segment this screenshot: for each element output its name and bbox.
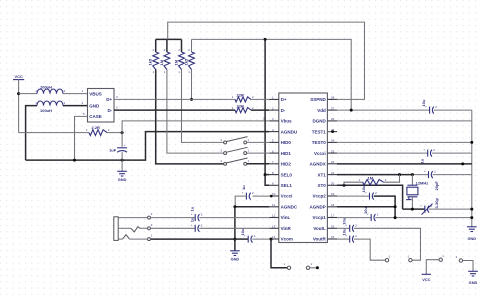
node SEL0 junction [264,173,267,176]
svg-text:+: + [242,191,244,195]
node jack tip pin [148,216,151,219]
svg-text:13: 13 [272,225,276,229]
svg-text:15: 15 [331,235,335,239]
wire R5 to node [107,132,122,134]
wire VoutR to C9 [337,238,350,240]
wire R6 to D+ pin [251,98,269,100]
power rail VCC symbol [13,79,24,81]
wire XT0 line [337,185,403,209]
svg-text:26: 26 [331,117,335,121]
wire AGNDC row [235,206,269,208]
svg-text:19: 19 [331,192,335,196]
svg-text:20pF: 20pF [434,181,439,191]
svg-text:+: + [191,212,193,216]
svg-text:14: 14 [272,235,276,239]
svg-text:10u: 10u [341,228,346,235]
wire analog ground drop [234,207,236,251]
svg-text:1M: 1M [159,59,164,65]
node CASE-rail junction [73,159,76,162]
wire SEL net vertical [265,39,269,185]
node jack ring pin [148,227,151,230]
wire C13 to Vcom pin [252,238,269,240]
svg-text:+: + [424,169,426,173]
wire SW2 to HID1 pin [247,152,269,154]
capacitor C7 10uF [370,214,372,221]
wire C8 to CN3 [354,228,421,260]
svg-text:+: + [423,148,425,152]
svg-text:AGNDX: AGNDX [310,162,326,167]
wire ground bus right [471,110,473,227]
node Vdd junction [350,109,353,112]
svg-text:18: 18 [331,203,335,207]
node cap-rail junction [121,159,124,162]
svg-text:1u: 1u [419,158,424,163]
svg-text:SEL1: SEL1 [281,183,293,188]
svg-text:Vdd: Vdd [317,108,326,113]
resistor R7 22R [235,108,251,113]
svg-text:VCC: VCC [422,277,430,282]
capacitor C13 10uF [247,236,249,243]
resistor R2 1M [166,39,168,52]
ground GND left [117,170,127,172]
svg-text:XT0: XT0 [318,183,327,188]
svg-text:10u: 10u [240,228,245,235]
node Vccp1-leg junction [394,216,397,219]
svg-text:D-: D- [281,108,286,113]
svg-text:10u: 10u [341,217,346,224]
capacitor C1 1uF [117,147,127,149]
svg-text:1u: 1u [241,185,246,190]
svg-text:VinR: VinR [281,226,292,231]
capacitor C5 trimmer 3-30p [424,206,426,213]
svg-text:2.2R: 2.2R [92,125,101,130]
wire crystal ground row [403,208,425,210]
wire sleeve to ground [151,238,235,240]
svg-text:12: 12 [272,214,276,218]
svg-text:Vccxi: Vccxi [314,151,326,156]
svg-text:12MHz: 12MHz [416,180,429,185]
connector CN4 right out [385,259,388,262]
wire R1 to SW3 [156,70,224,164]
svg-text:XT1: XT1 [318,172,327,177]
svg-text:23: 23 [331,149,335,153]
svg-text:17: 17 [331,214,335,218]
ground GND bus bottom [467,226,477,228]
svg-text:D-: D- [107,108,112,113]
capacitor C12 1uF [194,225,196,232]
wire D+ line [114,98,235,100]
resistor R5 2.2R [89,130,107,136]
svg-text:VBUS: VBUS [89,91,102,96]
svg-text:GND: GND [469,280,478,285]
wire AGNDP row [337,206,395,208]
wire C6 to AGNDP leg [374,196,395,218]
svg-text:HID1: HID1 [281,151,292,156]
svg-text:CASE: CASE [89,114,102,119]
wire C10 to AGNDC [235,196,246,207]
wire XT1 line [337,174,412,176]
wire C12 to VinR [199,227,269,229]
svg-text:10u: 10u [421,99,426,106]
connector J2 phone jack [114,217,118,241]
svg-text:D+: D+ [106,97,112,102]
svg-text:AGNDP: AGNDP [310,205,326,210]
wire SEL0 branch [265,174,269,176]
wire CN5 to VCC [426,260,439,275]
wire gnd to C13 [235,238,248,240]
svg-text:TEST0: TEST0 [312,140,327,145]
capacitor C10 1uF [245,193,247,200]
svg-text:GND: GND [467,236,476,241]
svg-text:VCC: VCC [14,74,22,79]
wire SSPND net top [156,38,182,40]
svg-text:1M: 1M [174,59,179,65]
node AGNDC junction [233,205,236,208]
svg-text:22: 22 [331,160,335,164]
connector CN6 GND testpoint [459,259,462,262]
wire VoutL to C8 [337,227,350,229]
svg-text:20: 20 [331,182,335,186]
svg-text:1M: 1M [368,175,374,180]
svg-text:11: 11 [272,203,275,207]
wire Vccxi to C3 [337,152,428,154]
wire jack ring contact [118,227,131,229]
connector CN2 testpoint [306,266,309,269]
svg-text:10: 10 [272,192,276,196]
capacitor C4 20pF [428,171,430,178]
wire L2 left leg [26,106,37,161]
connector CN3 left out [409,259,412,262]
svg-text:Vccp2: Vccp2 [313,194,327,199]
switch SW1 HID0 [224,141,227,144]
wire CN6 to GND [463,261,473,272]
wire C2 to bus [434,109,472,111]
node XT1-R8 junction [398,173,401,176]
node VCC-L1 junction [17,92,20,95]
svg-text:VoutR: VoutR [313,237,327,242]
capacitor C11 1uF [194,214,196,221]
svg-text:AGNDC: AGNDC [281,205,298,210]
svg-text:27: 27 [331,106,335,110]
node Vccp1-bus junction [470,216,473,219]
switch SW2 HID1 [224,152,227,155]
svg-text:22R: 22R [237,93,244,98]
connector J1 USB [88,89,115,123]
wire C5 to bus [429,208,472,210]
resistor R4 1k5 [191,39,193,52]
svg-text:1u: 1u [190,206,195,211]
svg-text:+: + [420,204,422,208]
node XT0-R8 junction [343,184,346,187]
svg-text:GND: GND [231,256,240,261]
svg-text:10u: 10u [361,185,366,192]
wire Vccp2 to C6 [337,195,370,197]
wire DGND to bus [337,120,472,122]
svg-text:D+: D+ [281,97,287,102]
svg-text:1u: 1u [190,217,195,222]
svg-text:GND: GND [118,177,127,182]
node filtered-VBUS junction [121,131,124,134]
wire jack tip contact [118,217,147,219]
resistor R3 1M [181,39,183,52]
svg-text:1uF: 1uF [109,147,117,152]
wire ground rail [26,132,270,161]
op-amp U1 PCM2702 DAC [279,93,328,243]
wire SW3 to HID2 pin [247,163,269,165]
svg-text:HID0: HID0 [281,140,292,145]
wire C1 to rail [121,152,123,160]
capacitor C9 10uF [349,236,351,243]
wire C7 to bus [375,217,471,219]
wire VCC to R5 [19,132,89,134]
svg-text:TEST1: TEST1 [312,129,327,134]
svg-text:VinL: VinL [281,215,291,220]
svg-text:22R: 22R [237,104,244,109]
svg-text:28: 28 [331,96,335,100]
svg-text:1k5: 1k5 [184,58,189,65]
wire rail to GND symbol [121,160,123,171]
resistor R6 22R [235,97,251,102]
capacitor C8 10uF [349,225,351,232]
wire C9 to CN4 [354,239,385,260]
wire VCC rail down [18,80,20,133]
wire TEST1 stub [327,131,332,133]
svg-text:VoutL: VoutL [313,226,326,231]
capacitor C6 10uF [369,193,371,200]
svg-text:100uH: 100uH [40,108,52,113]
wire node up to Vbus pin [122,121,269,133]
node Vcom junction [270,238,273,241]
wire jack sleeve contact [118,238,122,240]
wire CASE to ground rail [75,116,88,160]
node AGNDP junction [394,205,397,208]
crystal Y1 12MHz [411,175,413,186]
wire L1 to VBUS pin [63,93,88,95]
wire tip to C11 [151,217,195,219]
wire TEST0 to bus [337,141,472,143]
node XT1-crystal junction [411,173,414,176]
capacitor C3 1uF [427,150,429,157]
node crystal-gnd junction [411,208,414,211]
wire R2 to SW2 [167,70,224,154]
wire C3 to bus [432,152,472,154]
svg-text:1k5: 1k5 [147,58,152,65]
connector CN1 Vcom [287,266,290,269]
svg-text:DGND: DGND [313,119,327,124]
capacitor C2 10uF [429,107,431,114]
svg-text:+: + [124,143,126,147]
wire Vdd pin to C2 [337,109,430,111]
svg-text:24: 24 [331,139,335,143]
svg-text:GND: GND [89,103,100,108]
node trimmer-bus junction [470,208,473,211]
wire R7 to D- pin [251,109,269,111]
wire node down to C1 [121,133,123,147]
wire AGNDX to bus [337,163,472,165]
wire VCC to L1 [19,93,37,95]
wire ring to C12 [151,227,195,229]
svg-text:100uH: 100uH [40,84,52,89]
wire C4 to bus [433,174,472,176]
svg-text:16: 16 [331,225,335,229]
wire Vcom to CN1 [271,239,287,268]
resistor R1 1k5 [155,39,157,52]
svg-text:AGNDU: AGNDU [281,129,298,134]
svg-text:3-30p: 3-30p [434,197,439,208]
ground GND center [230,250,240,252]
svg-text:SEL0: SEL0 [281,172,293,177]
resistor R8 1M [344,182,363,185]
wire Vdd net top [192,39,352,110]
inductor L2 100uH [37,101,63,106]
svg-text:Vbus: Vbus [281,119,292,124]
ground GND testpoint [468,270,478,272]
svg-text:SSPND: SSPND [310,97,326,102]
svg-text:21: 21 [331,171,335,175]
connector CN5 VCC testpoint [439,258,442,261]
wire C11 to VinL [199,217,269,219]
node jack sleeve pin [148,238,151,241]
node TEST0-bus junction [470,141,473,144]
wire R4 to D+ net [191,70,193,100]
node R4-D+ junction [190,98,193,101]
svg-text:+: + [191,223,193,227]
svg-text:10u: 10u [363,207,368,214]
inductor L1 100uH [37,89,63,94]
node SEL pullup junction [264,38,267,41]
wire SW1 to HID0 pin [247,141,269,143]
wire R3 to SW1 [182,70,224,143]
wire Vccp1 to C7 [337,217,371,219]
node Vcom-gnd junction [233,238,236,241]
svg-text:HID2: HID2 [281,162,292,167]
svg-text:Vccp1: Vccp1 [313,215,327,220]
power VCC bottom [422,273,431,275]
node AGNDX junction [461,162,464,165]
wire L2 to GND pin [63,105,88,107]
wire D- line [114,109,235,111]
wire Vccci to C10 [253,195,270,197]
svg-text:Vcom: Vcom [281,237,293,242]
switch SW3 HID2 [224,162,227,165]
svg-text:Vccci: Vccci [281,194,293,199]
